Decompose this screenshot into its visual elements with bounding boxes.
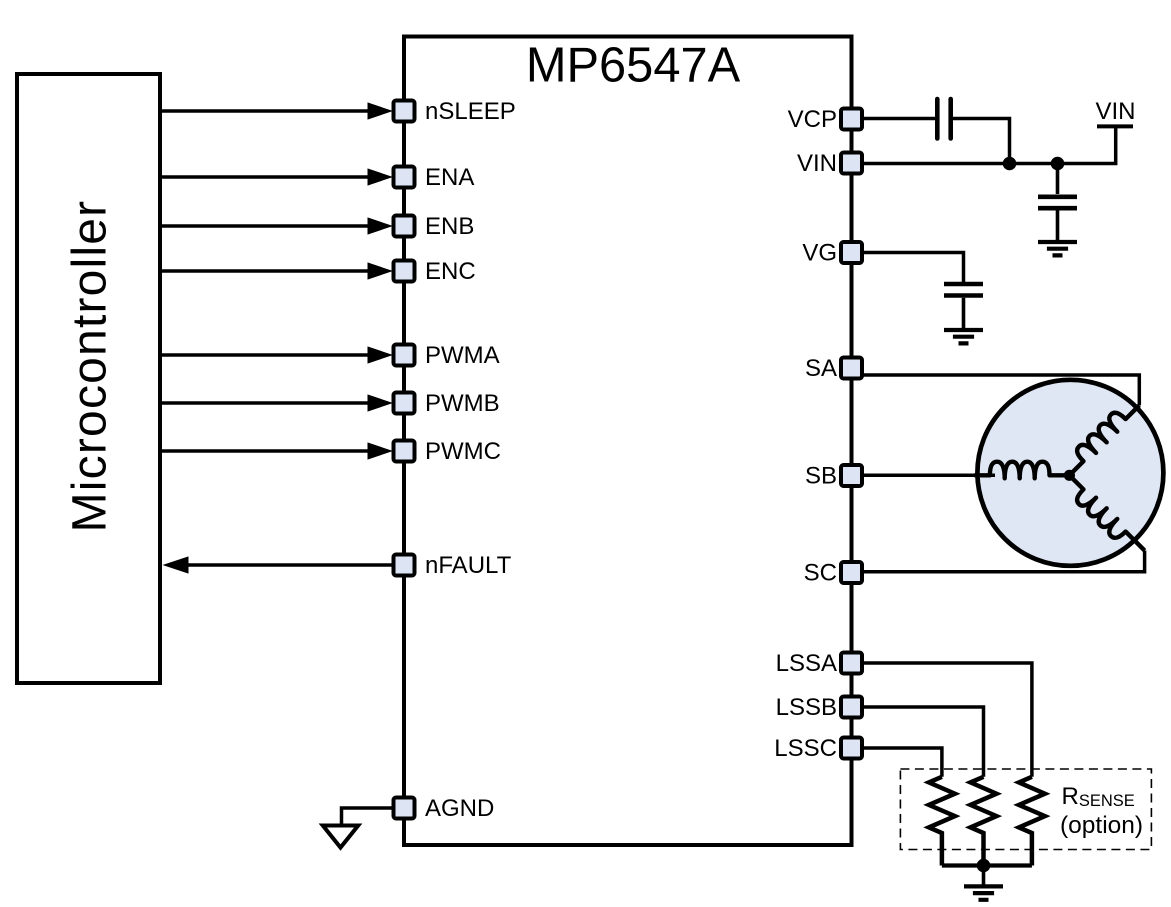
svg-text:PWMC: PWMC bbox=[425, 438, 501, 465]
pin PWMC bbox=[394, 441, 415, 462]
svg-text:VIN: VIN bbox=[1095, 98, 1135, 125]
wire PWMA from microcontroller bbox=[160, 353, 372, 357]
svg-text:LSSA: LSSA bbox=[776, 650, 837, 677]
pin nSLEEP bbox=[394, 101, 415, 122]
wire LSSC to sense resistor bbox=[862, 748, 942, 777]
svg-text:PWMA: PWMA bbox=[425, 342, 500, 369]
svg-text:VG: VG bbox=[802, 240, 837, 267]
wire ENB from microcontroller bbox=[160, 224, 372, 228]
pin VIN bbox=[841, 153, 862, 174]
motor M1 (BLDC) body circle bbox=[977, 380, 1163, 566]
VIN supply rail symbol bbox=[1097, 124, 1133, 128]
ground below C3 bbox=[944, 330, 983, 343]
arrowhead nFAULT (points left) bbox=[163, 556, 189, 573]
arrowhead ENA (points right) bbox=[368, 168, 394, 185]
pin ENB bbox=[394, 216, 415, 237]
wire LSSB to sense resistor bbox=[862, 707, 984, 777]
motor star point node bbox=[1064, 470, 1075, 481]
wire nSLEEP from microcontroller bbox=[160, 109, 372, 113]
pin LSSA bbox=[841, 653, 862, 674]
pin SC bbox=[841, 562, 862, 583]
svg-text:AGND: AGND bbox=[425, 795, 494, 822]
pin ENC bbox=[394, 261, 415, 282]
ground below sense resistors bbox=[964, 886, 1003, 899]
wire AGND bbox=[342, 808, 393, 824]
wire C2 to ground bbox=[1056, 211, 1060, 241]
pin AGND bbox=[394, 798, 415, 819]
capacitor C3 (VG bypass) bbox=[944, 284, 983, 296]
IC U1 MP6547A box bbox=[404, 37, 852, 846]
pin PWMA bbox=[394, 345, 415, 366]
ground below C2 bbox=[1038, 242, 1077, 255]
svg-text:ENB: ENB bbox=[425, 213, 474, 240]
wire VCP to capacitor C1 bbox=[862, 117, 935, 121]
svg-text:SB: SB bbox=[805, 463, 837, 490]
wire LSSA to sense resistor bbox=[862, 663, 1032, 777]
wire node to ground bbox=[982, 866, 986, 885]
wire VIN node down to capacitor C2 bbox=[1056, 164, 1060, 195]
arrowhead PWMB (points right) bbox=[368, 394, 394, 411]
arrowhead ENB (points right) bbox=[368, 217, 394, 234]
dashed box RSENSE option bbox=[900, 769, 1151, 850]
svg-text:VIN: VIN bbox=[797, 150, 837, 177]
svg-text:MP6547A: MP6547A bbox=[526, 39, 741, 93]
junction node on VIN wire (C1) bbox=[1003, 157, 1017, 171]
capacitor C1 (charge pump) bbox=[937, 99, 950, 139]
resistor R1 (LSSC leg) bbox=[929, 777, 955, 866]
wire PWMC from microcontroller bbox=[160, 449, 372, 453]
svg-text:SC: SC bbox=[804, 560, 837, 587]
microcontroller box bbox=[17, 74, 160, 683]
pin LSSB bbox=[841, 697, 862, 718]
wire VIN pin to VIN rail bbox=[862, 128, 1116, 164]
svg-text:(option): (option) bbox=[1060, 812, 1143, 839]
svg-text:nFAULT: nFAULT bbox=[425, 552, 512, 579]
svg-text:ENC: ENC bbox=[425, 258, 476, 285]
wire SA to motor bbox=[862, 375, 1139, 405]
pin VCP bbox=[841, 109, 862, 130]
wire ENC from microcontroller bbox=[160, 269, 372, 273]
svg-text:ENA: ENA bbox=[425, 164, 474, 191]
pin VG bbox=[841, 242, 862, 263]
motor winding C (inductor) bbox=[1060, 473, 1147, 560]
wire SB to motor bbox=[862, 474, 995, 478]
wire C3 to ground bbox=[962, 298, 966, 328]
svg-text:nSLEEP: nSLEEP bbox=[425, 98, 516, 125]
svg-text:PWMB: PWMB bbox=[425, 390, 500, 417]
wire PWMB from microcontroller bbox=[160, 401, 372, 405]
svg-text:SA: SA bbox=[805, 355, 837, 382]
wire ENA from microcontroller bbox=[160, 175, 372, 179]
arrowhead PWMA (points right) bbox=[368, 346, 394, 363]
arrowhead ENC (points right) bbox=[368, 262, 394, 279]
wire C1 to VIN node bbox=[953, 119, 1010, 164]
pin nFAULT bbox=[394, 555, 415, 576]
wire VG to capacitor C3 bbox=[862, 253, 964, 283]
signal ground (open triangle) at AGND bbox=[323, 826, 358, 848]
svg-text:LSSC: LSSC bbox=[774, 735, 837, 762]
capacitor C2 (input bypass) bbox=[1038, 197, 1077, 208]
pin PWMB bbox=[394, 393, 415, 414]
arrowhead nSLEEP (points right) bbox=[368, 102, 394, 119]
motor winding A (inductor) bbox=[1060, 396, 1142, 478]
svg-text:LSSB: LSSB bbox=[776, 694, 837, 721]
pin SB bbox=[841, 465, 862, 486]
svg-text:VCP: VCP bbox=[788, 106, 837, 133]
resistor R2 (LSSB leg) bbox=[971, 777, 997, 866]
pin SA bbox=[841, 358, 862, 379]
motor winding B (inductor) bbox=[974, 462, 1069, 479]
pin LSSC bbox=[841, 738, 862, 759]
wire joining resistor bottoms bbox=[942, 863, 1032, 867]
resistor R3 (LSSA leg) bbox=[1019, 777, 1045, 866]
wire nFAULT to microcontroller bbox=[186, 563, 393, 567]
wire SC to motor bbox=[862, 551, 1145, 572]
junction node on VIN wire (C2) bbox=[1051, 157, 1065, 171]
arrowhead PWMC (points right) bbox=[368, 442, 394, 459]
pin ENA bbox=[394, 167, 415, 188]
svg-text:Microcontroller: Microcontroller bbox=[64, 200, 117, 533]
junction node at resistor common bbox=[977, 859, 991, 873]
